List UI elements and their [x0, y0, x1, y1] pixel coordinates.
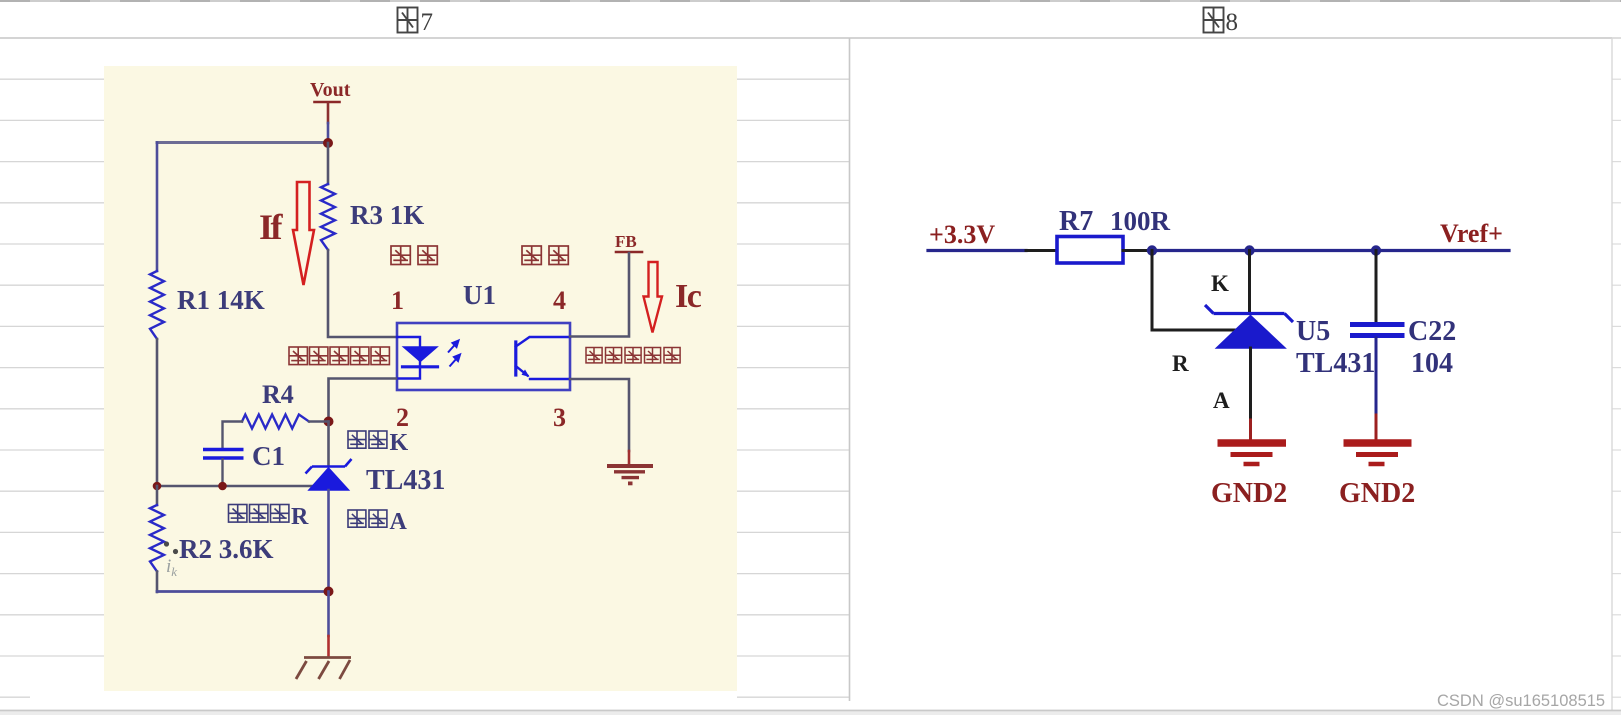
net Vout bar	[315, 101, 340, 104]
svg-text:K: K	[1211, 271, 1229, 296]
node R4 junction	[324, 417, 334, 427]
node C1 ref	[218, 482, 227, 491]
wire left rail ref to R2	[156, 486, 159, 505]
svg-text:Ic: Ic	[675, 278, 702, 315]
resistor R7 body	[1057, 237, 1123, 264]
svg-text:R: R	[291, 504, 309, 530]
wire TL431 anode lead	[327, 490, 330, 592]
svg-text:C22: C22	[1408, 316, 1456, 347]
capacitor C22	[1350, 325, 1405, 336]
label cathode K chinese	[348, 431, 366, 448]
label ref R chinese	[229, 505, 247, 523]
op-amp U1 optocoupler body	[397, 323, 570, 390]
ground GND2 left bars	[1218, 443, 1287, 464]
resistor R4	[242, 415, 309, 429]
diode LED of U1	[404, 347, 438, 362]
wire opto LED cathode lead	[397, 362, 420, 379]
svg-text:R2 3.6K: R2 3.6K	[179, 534, 274, 564]
right edge gridline stubs	[1612, 38, 1621, 697]
svg-text:C1: C1	[252, 441, 285, 471]
title label fig8	[1204, 8, 1224, 33]
node left rail ref	[153, 482, 162, 491]
wire opto LED anode lead	[397, 337, 420, 347]
transistor TL431 U5 cathode bar	[1205, 305, 1293, 322]
svg-text:A: A	[1213, 388, 1230, 413]
transistor base bar	[514, 342, 517, 375]
artifact dots near R2	[164, 541, 169, 546]
wire bottom to ground upper	[327, 592, 330, 637]
svg-text:TL431: TL431	[366, 465, 445, 496]
wire C22 red stub	[1375, 415, 1378, 440]
resistor R1	[150, 271, 164, 339]
center vertical divider	[849, 38, 851, 701]
schematic panel background fig7	[104, 66, 737, 691]
svg-text:R1 14K: R1 14K	[177, 285, 265, 315]
wire Vout stub lower	[327, 123, 330, 143]
wire opto pin2 to node	[329, 379, 397, 422]
transistor emitter arrowhead	[522, 370, 530, 378]
svg-text:Vref+: Vref+	[1440, 219, 1503, 248]
label anode A chinese	[348, 510, 366, 527]
wire opto collector to FB	[570, 253, 629, 337]
right edge vertical rule	[1611, 38, 1613, 710]
wire Vout stub upper	[327, 103, 330, 123]
wire R3 to opto pin1	[328, 250, 396, 337]
label ciji (secondary)	[391, 246, 410, 265]
header rule line	[0, 37, 1621, 39]
resistor R2	[150, 505, 164, 572]
wire left rail upper	[156, 143, 159, 272]
capacitor C1	[203, 450, 244, 459]
svg-text:3: 3	[553, 403, 566, 432]
svg-text:R4: R4	[262, 380, 294, 409]
resistor R3	[321, 184, 335, 250]
label photodiode chinese	[289, 347, 307, 365]
node ref loop junction	[1147, 245, 1157, 255]
bottom rule line	[0, 710, 1621, 712]
svg-text:7: 7	[421, 9, 434, 36]
label chuji (primary)	[522, 246, 541, 265]
transistor TL431 shunt ref symbol fig7	[306, 459, 352, 474]
node bottom junction	[324, 587, 334, 597]
spreadsheet gridlines left pane	[0, 79, 849, 697]
svg-text:CSDN @su165108515: CSDN @su165108515	[1437, 692, 1605, 710]
svg-text:U5: U5	[1296, 316, 1330, 347]
diode LED cathode bar	[403, 365, 438, 368]
svg-text:+3.3V: +3.3V	[929, 220, 995, 249]
svg-text:1: 1	[391, 286, 404, 315]
wire C1 bottom lead	[221, 460, 223, 487]
LED light arrow b	[450, 355, 461, 367]
wire C22 top	[1375, 251, 1378, 322]
svg-text:TL431: TL431	[1296, 348, 1375, 379]
ground GND2 right bars	[1344, 443, 1412, 464]
wire left rail mid	[156, 339, 159, 486]
svg-text:Vout: Vout	[310, 79, 351, 101]
wire C22 bottom blue	[1375, 338, 1378, 415]
TL431 triangle U5	[1217, 316, 1286, 349]
wire opto emitter to ground	[570, 379, 629, 451]
svg-text:U1: U1	[463, 280, 496, 310]
svg-text:A: A	[390, 509, 408, 535]
svg-text:104: 104	[1411, 348, 1453, 379]
node K junction	[1244, 245, 1254, 255]
TL431 triangle fig7	[309, 468, 349, 490]
wire TL431 cathode lead	[327, 422, 330, 467]
wire R4 right	[309, 420, 329, 422]
wire R3 top	[327, 143, 330, 184]
svg-text:If: If	[259, 207, 284, 247]
current arrow Ic	[644, 262, 663, 333]
transistor collector lead	[516, 337, 570, 347]
wire ground stub red	[628, 451, 631, 463]
wire top horizontal	[157, 141, 328, 144]
net FB bar	[616, 251, 642, 254]
wire anode black	[1249, 348, 1252, 420]
wire R4 left to C1 top	[223, 422, 243, 448]
svg-text:2: 2	[396, 403, 409, 432]
svg-text:R: R	[1172, 351, 1189, 376]
wire R7 to node	[1123, 249, 1152, 252]
ground opto emitter	[607, 466, 653, 483]
svg-text:100R: 100R	[1110, 206, 1171, 236]
label phototransistor chinese	[586, 348, 602, 363]
wire emitter inside box	[530, 378, 570, 380]
node C22 junction	[1371, 245, 1381, 255]
wire bottom horizontal	[157, 590, 329, 593]
wire ref node horizontal	[157, 485, 313, 488]
svg-text:R3 1K: R3 1K	[350, 200, 424, 230]
wire left rail bottom	[156, 572, 159, 593]
current arrow If	[293, 182, 314, 285]
wire bottom to ground lower	[327, 636, 330, 656]
wire main vref	[1152, 249, 1509, 252]
transistor emitter diagonal	[516, 366, 528, 376]
wire cathode K	[1248, 251, 1251, 314]
svg-text:GND2: GND2	[1211, 478, 1287, 509]
top border dashed line	[0, 0, 1621, 2]
svg-text:R7: R7	[1059, 206, 1093, 237]
title label fig7	[398, 8, 418, 33]
svg-text:8: 8	[1226, 9, 1239, 36]
wire 3v3 black	[1026, 249, 1057, 252]
LED light arrow a	[448, 341, 459, 353]
wire anode red stub	[1249, 420, 1252, 440]
node Vout junction	[323, 138, 333, 148]
svg-text:GND2: GND2	[1339, 478, 1415, 509]
ground earth fig7	[296, 658, 351, 680]
svg-text:K: K	[390, 430, 409, 456]
svg-text:FB: FB	[615, 232, 637, 251]
wire 3v3 navy	[928, 249, 1026, 252]
svg-text:4: 4	[553, 286, 566, 315]
wire ref loop	[1152, 251, 1237, 331]
